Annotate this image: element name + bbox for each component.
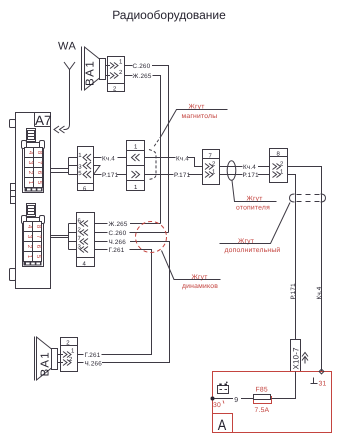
wire Kch.4 down right: [288, 167, 322, 372]
wire C.260 from BA1 pin1: [125, 66, 169, 233]
A7 connector block 1: [22, 129, 45, 193]
svg-text:BA1: BA1: [84, 60, 96, 86]
fanout stubs to connector 6: [69, 158, 78, 175]
dashed red circle (speaker harness group): [136, 222, 167, 253]
svg-text:7.5А: 7.5А: [255, 407, 270, 414]
wire Zh.265 from BA1 pin2: [125, 76, 161, 224]
svg-text:С.260: С.260: [133, 63, 151, 70]
connector 4 box: [77, 213, 95, 268]
svg-text:Кч.4: Кч.4: [243, 164, 256, 171]
svg-text:А7: А7: [35, 113, 52, 128]
wire R.171 row: [94, 174, 203, 176]
antenna wire arrow into A7: [54, 126, 65, 133]
dashed harness bracket: [149, 150, 156, 180]
relay/fuse unit box (red): [213, 372, 332, 435]
wire Zh.265 row: [95, 223, 161, 225]
A7 mounting tab middle: [11, 184, 16, 204]
svg-text:Ж.265: Ж.265: [109, 221, 128, 228]
svg-text:магнитолы: магнитолы: [182, 113, 218, 120]
terminal 30 node: [211, 397, 215, 401]
svg-text:BA1: BA1: [39, 351, 51, 376]
svg-text:С.260: С.260: [109, 230, 127, 237]
connector X10-7: [291, 340, 301, 372]
wire R.171 down: [288, 175, 296, 340]
svg-text:динамиков: динамиков: [182, 283, 218, 290]
svg-text:9: 9: [234, 397, 238, 404]
svg-text:Ч.266: Ч.266: [109, 239, 127, 246]
connector 6 box: [78, 147, 94, 193]
svg-text:30: 30: [213, 402, 221, 409]
connector X of BA1 top: box with pins 1,2 and label 2: [106, 57, 125, 93]
plug arrow at X10-7: [302, 353, 308, 364]
compartment A: [213, 414, 233, 433]
inline connector (1/1) box: [127, 141, 145, 192]
wire G.261 row: [77, 250, 152, 355]
svg-text:Г.261: Г.261: [109, 247, 125, 254]
A7 mounting tab top: [10, 120, 16, 128]
harness pair from A7 to connector 4: [51, 224, 69, 250]
svg-text:Кч.4: Кч.4: [316, 286, 323, 299]
svg-text:WA: WA: [58, 41, 76, 53]
svg-text:Кч.4: Кч.4: [102, 155, 115, 162]
wire Ch.266 row: [77, 242, 170, 363]
A7 connector block 2: [22, 204, 45, 267]
svg-text:отопителя: отопителя: [236, 205, 270, 212]
svg-text:Г.261: Г.261: [85, 352, 101, 359]
svg-text:Р.171: Р.171: [243, 172, 260, 179]
svg-text:Р.171: Р.171: [290, 283, 297, 300]
svg-text:Кч.4: Кч.4: [176, 155, 189, 162]
svg-text:Р.171: Р.171: [102, 172, 119, 179]
A7 unit box: [16, 113, 52, 289]
wire labels G.261 / Ch.266: [84, 351, 102, 358]
wire fuse to X10-7: [272, 372, 296, 399]
svg-text:Ж.265: Ж.265: [133, 73, 152, 80]
speaker BA1 (top): [82, 47, 106, 91]
svg-text:А: А: [218, 417, 227, 434]
ground 31: [311, 378, 318, 384]
A7 mounting tab bottom: [10, 269, 16, 281]
svg-text:F85: F85: [256, 387, 268, 394]
speaker BA1 (bottom): [35, 337, 58, 381]
wire Kch.4 row: [94, 158, 203, 167]
wires 7 to 8: [220, 166, 270, 168]
svg-text:Р.171: Р.171: [174, 172, 191, 179]
connector X of BA1 bottom: [58, 338, 78, 372]
Z jumper at connector 6: [94, 166, 101, 175]
svg-text:Ч.266: Ч.266: [85, 360, 103, 367]
junction diamond at 31: [319, 369, 324, 374]
dashed passthrough oval (additional harness): [290, 194, 326, 202]
wire S.260 row: [95, 232, 169, 234]
passthrough oval at heater harness: [227, 161, 236, 181]
svg-text:дополнительный: дополнительный: [225, 246, 281, 254]
harness pair from A7 to connector 6: [51, 158, 69, 175]
fanout stubs to connector 4: [69, 224, 77, 250]
connector 7 box: [203, 150, 220, 185]
connector 8 box: [270, 149, 288, 183]
svg-text:Радиооборудование: Радиооборудование: [112, 8, 226, 22]
antenna symbol: [64, 62, 76, 130]
svg-text:31: 31: [319, 380, 327, 387]
wire to fuse with pin 9: [215, 398, 254, 400]
fuse F85: [254, 387, 272, 415]
battery icon: [218, 382, 229, 394]
svg-text:X10-7: X10-7: [291, 347, 300, 369]
